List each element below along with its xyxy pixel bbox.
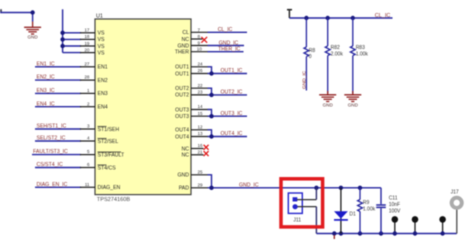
svg-text:22: 22	[198, 83, 204, 88]
svg-text:23: 23	[198, 90, 204, 95]
svg-text:VS: VS	[98, 44, 105, 50]
svg-text:12: 12	[198, 124, 204, 129]
svg-text:14: 14	[198, 104, 204, 109]
svg-text:OUT2: OUT2	[175, 93, 189, 99]
svg-text:1.00k: 1.00k	[363, 207, 376, 213]
svg-text:16: 16	[198, 143, 204, 148]
svg-text:1.00k: 1.00k	[356, 52, 369, 58]
svg-text:DIAG_EN_IC: DIAG_EN_IC	[37, 182, 68, 188]
svg-text:VS: VS	[98, 31, 105, 37]
svg-text:D1: D1	[349, 211, 356, 217]
svg-text:2.00k: 2.00k	[331, 52, 344, 58]
svg-text:GND_IC: GND_IC	[302, 70, 308, 89]
svg-text:EN4_IC: EN4_IC	[37, 101, 55, 107]
svg-text:ST3/FAULT: ST3/FAULT	[98, 152, 126, 158]
svg-text:NC: NC	[182, 146, 190, 152]
svg-text:CS/ST4_IC: CS/ST4_IC	[37, 162, 63, 168]
svg-text:THER_IC: THER_IC	[218, 47, 240, 53]
svg-text:NC: NC	[182, 37, 190, 43]
svg-text:5: 5	[87, 149, 90, 154]
svg-text:J11: J11	[293, 218, 301, 224]
svg-text:21: 21	[198, 149, 204, 154]
svg-text:GND: GND	[177, 43, 189, 49]
svg-text:R82: R82	[331, 45, 340, 51]
svg-text:OUT3_IC: OUT3_IC	[221, 111, 243, 117]
svg-text:VS: VS	[98, 37, 105, 43]
svg-text:R9: R9	[363, 200, 370, 206]
svg-text:GND: GND	[348, 102, 359, 107]
svg-text:0: 0	[309, 54, 312, 60]
svg-text:NC: NC	[182, 153, 190, 159]
svg-text:R8: R8	[309, 48, 316, 54]
svg-text:17: 17	[84, 28, 90, 33]
svg-text:OUT1: OUT1	[175, 65, 189, 71]
svg-text:3: 3	[87, 124, 90, 129]
svg-text:TPS274160B: TPS274160B	[97, 197, 131, 203]
svg-text:GND: GND	[27, 34, 38, 39]
svg-text:27: 27	[84, 61, 90, 66]
svg-text:EN2: EN2	[98, 78, 108, 84]
svg-text:SEH/ST1_IC: SEH/ST1_IC	[37, 124, 67, 130]
svg-text:6: 6	[87, 162, 90, 167]
svg-text:4: 4	[87, 136, 90, 141]
svg-text:GND: GND	[177, 173, 189, 179]
svg-text:7: 7	[198, 27, 201, 32]
svg-text:C11: C11	[389, 195, 398, 201]
svg-text:PAD: PAD	[179, 186, 190, 192]
svg-text:2: 2	[87, 101, 90, 106]
svg-text:U1: U1	[96, 13, 103, 19]
svg-text:GND_IC: GND_IC	[239, 182, 259, 188]
svg-text:ST2/SEL: ST2/SEL	[98, 139, 119, 145]
svg-text:OUT3: OUT3	[175, 107, 189, 113]
svg-text:ST4/CS: ST4/CS	[98, 165, 117, 171]
svg-text:OUT3: OUT3	[175, 114, 189, 120]
svg-text:ST1/SEH: ST1/SEH	[98, 127, 120, 133]
svg-text:29: 29	[198, 182, 204, 187]
svg-text:25: 25	[198, 169, 204, 174]
svg-text:EN3: EN3	[98, 91, 108, 97]
svg-text:15: 15	[198, 111, 204, 116]
svg-text:CL: CL	[182, 30, 189, 36]
svg-text:10: 10	[197, 47, 203, 52]
svg-text:THER: THER	[175, 50, 189, 56]
svg-text:10nF: 10nF	[389, 202, 400, 208]
svg-text:EN2_IC: EN2_IC	[37, 75, 55, 81]
svg-text:20: 20	[84, 47, 90, 52]
svg-text:13: 13	[198, 131, 204, 136]
svg-text:28: 28	[84, 75, 90, 80]
svg-text:18: 18	[84, 34, 90, 39]
svg-text:SEL/ST2_IC: SEL/ST2_IC	[37, 136, 66, 142]
svg-text:J17: J17	[451, 189, 459, 195]
svg-text:26: 26	[198, 68, 204, 73]
svg-text:8: 8	[198, 34, 201, 39]
svg-text:1: 1	[87, 88, 90, 93]
svg-text:EN1: EN1	[98, 65, 108, 71]
svg-text:FAULT/ST3_IC: FAULT/ST3_IC	[33, 149, 68, 155]
svg-text:EN3_IC: EN3_IC	[37, 88, 55, 94]
svg-text:OUT4: OUT4	[175, 128, 189, 134]
svg-text:GND_IC: GND_IC	[219, 40, 239, 46]
svg-text:R83: R83	[356, 45, 365, 51]
svg-text:EN1_IC: EN1_IC	[37, 61, 55, 67]
svg-text:OUT2: OUT2	[175, 86, 189, 92]
svg-text:OUT4_IC: OUT4_IC	[221, 131, 243, 137]
svg-text:9: 9	[198, 41, 201, 46]
svg-text:EN4: EN4	[98, 105, 108, 111]
svg-text:CL_IC: CL_IC	[218, 27, 233, 33]
svg-text:OUT1_IC: OUT1_IC	[221, 68, 243, 74]
svg-text:GND: GND	[323, 102, 334, 107]
svg-text:OUT2_IC: OUT2_IC	[221, 90, 243, 96]
svg-text:VS: VS	[98, 50, 105, 56]
svg-text:OUT4: OUT4	[175, 134, 189, 140]
svg-text:24: 24	[198, 61, 204, 66]
svg-text:DIAG_EN: DIAG_EN	[98, 185, 121, 191]
svg-text:19: 19	[84, 41, 90, 46]
svg-text:CL_IC: CL_IC	[375, 13, 391, 19]
svg-text:11: 11	[85, 182, 90, 187]
svg-text:100V: 100V	[389, 208, 401, 214]
svg-text:OUT1: OUT1	[175, 71, 189, 77]
